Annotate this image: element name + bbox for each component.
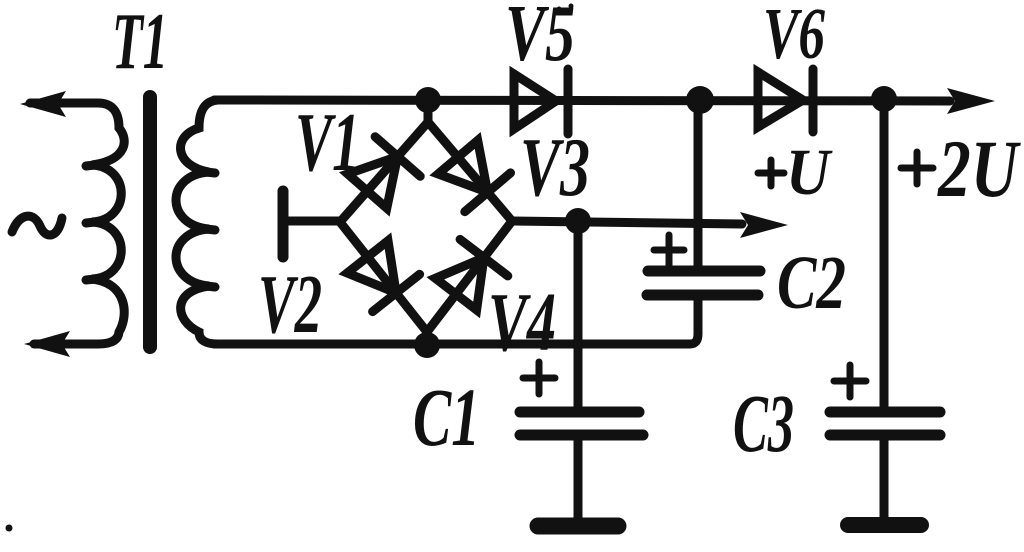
svg-text:C2: C2 bbox=[777, 241, 846, 325]
svg-text:T1: T1 bbox=[112, 0, 168, 86]
svg-text:V1: V1 bbox=[295, 96, 360, 189]
svg-text:V3: V3 bbox=[520, 121, 590, 214]
svg-text:U: U bbox=[786, 136, 833, 209]
svg-text:2U: 2U bbox=[937, 123, 1021, 214]
svg-text:C1: C1 bbox=[413, 371, 480, 463]
svg-text:V6: V6 bbox=[763, 0, 825, 74]
svg-text:C3: C3 bbox=[733, 377, 794, 469]
svg-text:V2: V2 bbox=[258, 258, 322, 351]
svg-text:V5: V5 bbox=[505, 0, 575, 78]
svg-text:V4: V4 bbox=[488, 276, 556, 369]
